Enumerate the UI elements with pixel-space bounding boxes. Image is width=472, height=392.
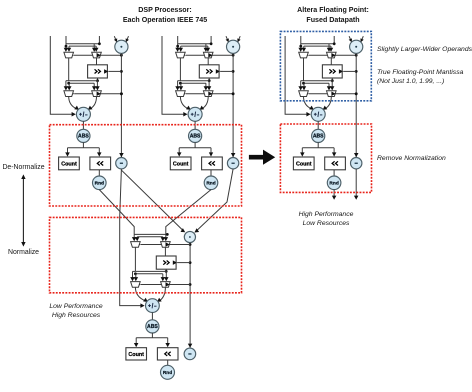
wire: cell 1 mux select line row 1 xyxy=(74,54,121,56)
wire: mux M1d input stubs xyxy=(93,83,95,87)
rounder R4 (Rnd) xyxy=(161,365,175,379)
node: cell 3 crossover junction left xyxy=(299,45,302,48)
wire: mux M3a output xyxy=(303,58,305,81)
big black arrow: transformation xyxy=(249,150,275,165)
wire: mux M2b output into shifter xyxy=(207,58,209,65)
mux M3d (align mux right) xyxy=(327,91,337,97)
wire: cell 2 mantissa (Rnd) to stage-2 right mux xyxy=(166,190,211,235)
label: High Performance / Low Resources xyxy=(299,211,354,227)
leading-zero counter Count3 xyxy=(293,157,314,170)
wire: mux M4b input stubs xyxy=(162,237,164,238)
wire: cell 2 mux select line row 1 xyxy=(186,54,233,56)
mux M1c (align mux left) xyxy=(64,91,74,97)
wire: cell 2 exponent bus vertical xyxy=(232,53,234,157)
svg-text:Normalize: Normalize xyxy=(8,249,39,256)
wire: ABS U4 output branch xyxy=(151,333,153,338)
mux M3b (swap mux right) xyxy=(327,52,337,58)
rounder R1 (Rnd) xyxy=(93,176,107,190)
mux M2d (align mux right) xyxy=(203,91,213,97)
arrow: select into mux M2b xyxy=(208,53,212,58)
arrow: select into mux M3d xyxy=(331,92,335,97)
wire: mux M3d output curve into adder xyxy=(325,97,332,110)
svg-text:(Not Just 1.0, 1.99, ...): (Not Just 1.0, 1.99, ...) xyxy=(377,78,444,85)
node: stage-2 lower crossover junction xyxy=(134,272,137,275)
svg-text:ABS: ABS xyxy=(147,324,158,330)
adder A4 (+/- stage 2) xyxy=(146,299,160,313)
wire: cell 3 mux M3b second input stub xyxy=(328,44,330,49)
wire: cell 1 mux select line row 2 xyxy=(74,93,121,95)
wire: shifter S2 output xyxy=(208,78,210,81)
node: exponent bus junction at mux row 2 level xyxy=(355,92,358,95)
shifter S3 (&gt;&gt; align) xyxy=(322,65,342,78)
wire: mux M4c output curve into adder A4 xyxy=(135,287,145,301)
absolute value U1 (ABS) xyxy=(77,129,90,142)
node: cell 1 lower crossover junction xyxy=(67,82,70,85)
node: select junction row 2 on exponent bus xyxy=(355,92,358,95)
normalize shifter L4 (&lt;&lt;) xyxy=(157,348,178,360)
mux M3a (swap mux left) xyxy=(299,52,309,58)
wire: cell 2 mux M2b first input stub xyxy=(207,46,209,48)
wire: cell 3 operand crossover lower xyxy=(304,45,331,47)
absolute value U4 (ABS) xyxy=(146,320,159,333)
svg-text:High Resources: High Resources xyxy=(52,312,101,319)
normalize shifter L2 (&lt;&lt;) xyxy=(202,157,223,170)
wire: cell 2 mux M2a second input stub xyxy=(180,46,182,48)
mux M2a (swap mux left) xyxy=(176,52,186,58)
wire: cell 2 mux M2b second input stub xyxy=(205,44,207,49)
svg-text:Rnd: Rnd xyxy=(163,370,172,376)
wire: stage-2 lower crossover lower xyxy=(135,273,162,275)
node: exponent bus junction at mux row 2 level xyxy=(232,92,235,95)
svg-text:Fused Datapath: Fused Datapath xyxy=(306,16,359,24)
wire: mux M3b output into shifter xyxy=(330,58,332,65)
svg-text:Count: Count xyxy=(296,161,312,167)
wire: cell 2 exponent into stage-2 compare xyxy=(195,169,233,232)
wire: cell 3 mux select line row 1 xyxy=(309,54,356,56)
exponent subtract circle X1 (top) xyxy=(114,36,117,42)
leading-zero counter Count1 xyxy=(59,157,80,170)
wire: shifter S1 output xyxy=(97,78,99,81)
wire: cell 3 feedback line into adder left input xyxy=(285,36,309,114)
node: cell 3 crossover junction right xyxy=(333,42,336,45)
node: cell 3 lower crossover junction xyxy=(302,82,305,85)
svg-text:ABS: ABS xyxy=(78,134,89,140)
label: True Floating-Point Mantissa xyxy=(377,69,464,85)
wire: shifter L1 output into rounder xyxy=(98,170,100,176)
mux M4c (stage-2 align mux left) xyxy=(131,282,141,288)
exponent adjust circle E1 (-) xyxy=(116,158,127,169)
red dashed box: de-normalize logic stage 1 xyxy=(50,125,242,206)
wire: shift amount into S4 xyxy=(177,262,190,264)
svg-text:ABS: ABS xyxy=(190,134,201,140)
mux M2c (align mux left) xyxy=(176,91,186,97)
node: exponent bus junction at shifter level xyxy=(120,70,123,73)
wire: cell 3 operand crossover upper xyxy=(301,43,334,45)
svg-text:Rnd: Rnd xyxy=(206,181,215,187)
leading-zero counter Count2 xyxy=(170,157,191,170)
svg-text:Count: Count xyxy=(128,352,144,358)
wire: cell 2 feedback line into adder left input xyxy=(162,36,186,114)
wire: mux M1c output curve into adder xyxy=(69,97,77,110)
label: Low Performance / High Resources xyxy=(49,303,102,319)
wire: mux M4c input stubs xyxy=(133,270,136,272)
wire: mux M4d output curve into adder A4 xyxy=(159,287,165,301)
svg-text:Rnd: Rnd xyxy=(329,181,338,187)
wire: cell 1 exponent down to stage-2 adder left input xyxy=(120,169,144,306)
adder A1 (+/- mantissa add/sub) xyxy=(76,107,90,121)
wire: cell 3 lower crossover upper xyxy=(304,80,333,82)
wire: stage-2 operand crossover lower xyxy=(137,236,163,238)
node: shifter S4 output junction xyxy=(165,270,168,273)
svg-text:Count: Count xyxy=(173,161,189,167)
wire: mux M2a output xyxy=(179,58,181,81)
wire: shifter S3 output xyxy=(331,78,333,81)
node: select junction row 2 on exponent bus xyxy=(120,92,123,95)
exponent adjust circle E3 (-) xyxy=(351,158,362,169)
wire: shifter L2 output into rounder xyxy=(210,170,212,176)
node: exponent bus junction at shifter level xyxy=(355,70,358,73)
node: stage-2 bus junction row 2 xyxy=(189,283,192,286)
wire: cell 2 operand crossover lower xyxy=(181,45,208,47)
wire: cell 3 exponent bus vertical xyxy=(355,53,357,157)
node: cell 3 select junction on exponent bus row 1 xyxy=(355,54,358,57)
wire: mux M3c output curve into adder xyxy=(304,97,312,110)
svg-text:Remove Normalization: Remove Normalization xyxy=(377,155,446,162)
wire: cell 1 lower crossover upper xyxy=(69,80,98,82)
svg-text:Low Performance: Low Performance xyxy=(49,303,102,310)
mux M1d (align mux right) xyxy=(92,91,102,97)
wire: shift amount into S2 xyxy=(220,70,233,72)
title: DSP Processor header xyxy=(123,6,207,24)
wire: mux M1c input stubs xyxy=(66,80,69,82)
node: cell 1 crossover junction left xyxy=(65,45,68,48)
arrow: select into mux M1b xyxy=(97,53,101,58)
wire: ABS output branch xyxy=(317,142,319,147)
node: select junction row 2 on exponent bus xyxy=(232,92,235,95)
wire: cell 3 lower crossover lower xyxy=(304,82,330,84)
wire: cell 2 lower crossover upper xyxy=(180,80,209,82)
wire: shifter S4 output xyxy=(165,269,167,271)
wire: stage-2 exponent bus vertical xyxy=(189,243,191,348)
mux M4d (stage-2 align mux right) xyxy=(161,282,171,288)
wire: cell 3 input A vertical xyxy=(300,36,302,49)
node: exponent bus junction at shifter level xyxy=(232,70,235,73)
title: Altera Floating Point header xyxy=(297,6,369,24)
mux M1a (swap mux left) xyxy=(64,52,74,58)
wire: cell 1 input B vertical xyxy=(98,36,100,44)
svg-text:High Performance: High Performance xyxy=(299,211,354,218)
wire: mux M4a input stubs xyxy=(133,234,135,238)
node: shifter output junction xyxy=(331,79,334,82)
node: cell 2 crossover junction left xyxy=(176,45,179,48)
wire: shift amount into S3 xyxy=(343,70,356,72)
wire: cell 3 input B vertical xyxy=(333,36,335,44)
mux M2b (swap mux right) xyxy=(203,52,213,58)
node: stage-2 bus junction row 1 xyxy=(189,243,192,246)
wire: shifter L4 output into rounder R4 xyxy=(167,360,169,366)
svg-text:Low Resources: Low Resources xyxy=(303,220,350,227)
wire: cell 3 mux M3a second input stub xyxy=(303,46,305,48)
exponent adjust circle E4 (-) xyxy=(184,348,196,360)
wire: mux M4a output xyxy=(134,247,136,271)
svg-text:Count: Count xyxy=(61,161,77,167)
wire: cell 1 mux M1b second input stub xyxy=(93,44,95,49)
exponent adjust circle E2 (-) xyxy=(227,158,238,169)
svg-text:True Floating-Point Mantissa: True Floating-Point Mantissa xyxy=(377,69,464,76)
wire: cell 3 mux select line row 2 xyxy=(309,93,356,95)
wire: mux M2c input stubs xyxy=(178,80,181,82)
wire: cell 2 operand crossover upper xyxy=(178,43,211,45)
mux M1b (swap mux right) xyxy=(92,52,102,58)
wire: mux M3c input stubs xyxy=(301,80,304,82)
svg-text:ABS: ABS xyxy=(313,134,324,140)
wire: cell 3 rounded mantissa output xyxy=(333,190,335,197)
wire: cell 2 input A vertical xyxy=(177,36,179,49)
wire: mux M1a output xyxy=(68,58,70,81)
mux M4a (stage-2 swap mux left) xyxy=(131,242,141,248)
wire: mux M4d input stubs xyxy=(162,274,164,278)
wire: cell 1 exponent bus vertical xyxy=(120,53,122,157)
wire: stage-2 operand crossover upper xyxy=(134,233,167,235)
wire: mux M1d output curve into adder xyxy=(90,97,97,110)
svg-text:Rnd: Rnd xyxy=(95,181,104,187)
svg-text:Altera Floating Point:: Altera Floating Point: xyxy=(297,6,369,14)
wire: cell 1 mux M1a second input stub xyxy=(68,46,70,48)
wire: cell 1 input A vertical xyxy=(65,36,67,49)
exponent subtract circle X3 (top) xyxy=(349,36,352,42)
wire: cell 1 mantissa (Rnd) to stage-2 left mux xyxy=(99,190,134,235)
arrow: select into mux M4b xyxy=(166,242,170,247)
wire: cell 1 lower crossover lower xyxy=(69,82,95,84)
arrow: de-normalize/normalize double arrow xyxy=(21,174,25,246)
shifter S4 (&gt;&gt; align) xyxy=(156,256,176,269)
shifter S1 (&gt;&gt; align) xyxy=(88,65,108,78)
adder A2 (+/- mantissa add/sub) xyxy=(188,107,202,121)
node: shifter output junction xyxy=(208,79,211,82)
wire: mux M3d input stubs xyxy=(328,83,330,87)
wire: stage-2 mux select line row 1 xyxy=(141,244,190,246)
node: exponent bus junction at mux row 2 level xyxy=(120,92,123,95)
wire: mux M1b output into shifter xyxy=(96,58,98,65)
node: stage-2 bus junction shifter xyxy=(189,261,192,264)
arrow: select into mux M3b xyxy=(331,53,335,58)
absolute value U2 (ABS) xyxy=(189,129,202,142)
wire: stage-2 lower crossover upper xyxy=(135,270,166,272)
rounder R2 (Rnd) xyxy=(204,176,218,190)
wire: shifter L3 output into rounder xyxy=(333,170,335,176)
wire: adder A4 output xyxy=(151,313,153,320)
red dashed box: normalize logic stage 2 xyxy=(50,217,242,292)
wire: mux M4b output into shifter xyxy=(164,247,166,256)
mux M3c (align mux left) xyxy=(299,91,309,97)
wire: cell 1 mux M1b first input stub xyxy=(95,46,97,48)
leading-zero counter Count4 xyxy=(126,348,147,360)
exponent subtract circle X2 (top) xyxy=(226,36,229,42)
mux M4b (stage-2 swap mux right) xyxy=(161,242,171,248)
red dashed box: removed normalization (fused) xyxy=(280,124,371,192)
shifter S2 (&gt;&gt; align) xyxy=(199,65,219,78)
wire: cell 2 input B vertical xyxy=(210,36,212,44)
wire: adder A2 output xyxy=(194,121,196,130)
svg-text:Slightly Larger-Wider Operands: Slightly Larger-Wider Operands xyxy=(377,46,472,53)
wire: cell 1 feedback line into adder left input xyxy=(50,36,74,114)
wire: cell 2 lower crossover lower xyxy=(180,82,206,84)
node: cell 2 lower crossover junction xyxy=(179,82,182,85)
wire: stage-2 mux select line row 2 xyxy=(141,284,190,286)
wire: cell 1 operand crossover upper xyxy=(66,43,99,45)
node: cell 1 crossover junction right xyxy=(98,42,101,45)
svg-text:DSP Processor:: DSP Processor: xyxy=(138,6,192,14)
svg-text:De-Normalize: De-Normalize xyxy=(2,164,44,171)
wire: mux M2d output curve into adder xyxy=(202,97,209,110)
node: cell 1 select junction on exponent bus row 1 xyxy=(120,54,123,57)
blue dashed box: fused datapath operands xyxy=(280,31,371,100)
wire: mux M2d input stubs xyxy=(205,83,207,87)
wire: cell 1 operand crossover lower xyxy=(69,45,96,47)
wire: mux M2c output curve into adder xyxy=(180,97,188,110)
node: cell 2 select junction on exponent bus row 1 xyxy=(232,54,235,57)
wire: cell 1 exponent diagonal into stage-2 compare xyxy=(122,170,185,231)
wire: cell 3 mux M3b first input stub xyxy=(330,46,332,48)
wire: cell 2 mux select line row 2 xyxy=(186,93,233,95)
node: stage-2 crossover junction xyxy=(166,233,169,236)
arrow: select into mux M4d xyxy=(166,282,170,287)
wire: adder A1 output xyxy=(82,121,84,130)
exponent compare circle X4 (stage 2) xyxy=(184,231,195,242)
svg-text:Each Operation IEEE 745: Each Operation IEEE 745 xyxy=(123,16,207,24)
normalize shifter L1 (&lt;&lt;) xyxy=(90,157,111,170)
adder A3 (+/- mantissa add/sub) xyxy=(311,107,325,121)
wire: cell 3 exponent output xyxy=(355,169,357,197)
wire: ABS output branch xyxy=(194,142,196,147)
wire: shift amount into S1 xyxy=(108,70,121,72)
normalize shifter L3 (&lt;&lt;) xyxy=(325,157,346,170)
rounder R3 (Rnd) xyxy=(327,176,341,190)
wire: adder A3 output xyxy=(317,121,319,130)
wire: ABS output branch xyxy=(82,142,84,147)
node: shifter output junction xyxy=(96,79,99,82)
absolute value U3 (ABS) xyxy=(312,129,325,142)
arrow: select into mux M1d xyxy=(97,92,101,97)
node: cell 2 crossover junction right xyxy=(210,42,213,45)
arrow: select into mux M2d xyxy=(208,92,212,97)
